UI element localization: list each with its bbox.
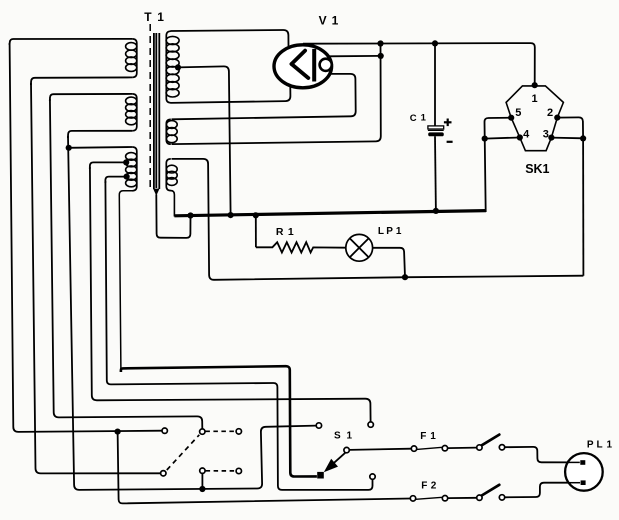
wire: SK1 pin 2 right and down bbox=[557, 117, 583, 138]
label V1 bbox=[319, 14, 339, 28]
svg-text:1: 1 bbox=[332, 14, 339, 28]
wire: S1 top lead to V1 anode (top) bbox=[171, 30, 289, 47]
svg-text:S: S bbox=[334, 431, 341, 442]
wire: neutral down to fuse F2 bbox=[118, 432, 411, 504]
switch S1 moving contact (square) bbox=[317, 472, 324, 479]
label LP1 bbox=[378, 226, 402, 237]
label S1 bbox=[334, 431, 353, 442]
wire: junction column down to S2 bottom lead bbox=[172, 44, 381, 145]
svg-text:SK1: SK1 bbox=[525, 162, 549, 176]
svg-text:1: 1 bbox=[421, 113, 427, 124]
wire: column 3 down to selector contact M1 feed bbox=[50, 99, 202, 429]
transformer T1 secondary winding S2 (rectifier heater) bbox=[166, 119, 177, 144]
switch S1 upper-right contact bbox=[368, 422, 373, 427]
label PL1 bbox=[587, 439, 613, 450]
svg-text:1: 1 bbox=[430, 431, 436, 442]
label F1 bbox=[420, 431, 436, 442]
svg-text:1: 1 bbox=[532, 93, 538, 105]
wire: S1 bottom lead up to V1 anode (bottom) bbox=[171, 87, 291, 103]
wire: switch to PL1 live pin bbox=[505, 447, 580, 463]
junction: pin3 line on right column bbox=[580, 135, 586, 141]
voltage selector switch: contact L1 bbox=[162, 428, 167, 433]
switch contact (neutral pole) bbox=[477, 485, 505, 501]
plug PL1 bbox=[565, 453, 603, 491]
transformer T1 primary winding P1 bbox=[126, 39, 137, 78]
wire: bus to R1 bbox=[255, 215, 257, 247]
selector gang link M1-R1 (dashed) bbox=[205, 430, 235, 432]
voltage selector switch: contact R2 bbox=[236, 468, 241, 473]
svg-text:1: 1 bbox=[347, 431, 353, 442]
svg-text:P: P bbox=[386, 226, 393, 237]
switch contact (live pole) bbox=[477, 435, 505, 451]
SK1 pin 4 bbox=[517, 134, 523, 140]
transformer T1 primary winding P3 (tapped) bbox=[126, 147, 137, 191]
svg-text:3: 3 bbox=[543, 129, 549, 141]
SK1 pin number labels bbox=[515, 93, 553, 141]
voltage selector switch: contact M2 bbox=[200, 468, 205, 473]
wire: right column down to lamp return line bbox=[582, 138, 584, 275]
wire: SK1 pin 4 to column bbox=[485, 138, 520, 139]
wire: column 1 (mains neutral) down to selector row A bbox=[10, 43, 162, 432]
wire: M2 stem bbox=[201, 474, 203, 489]
svg-text:4: 4 bbox=[523, 129, 530, 141]
svg-text:L: L bbox=[378, 226, 384, 237]
svg-text:T: T bbox=[144, 10, 152, 24]
SK1 pin 2 bbox=[554, 115, 560, 121]
svg-text:P: P bbox=[587, 439, 594, 450]
junction: centre tap on winding bbox=[175, 64, 181, 70]
lamp LP1 bbox=[346, 234, 373, 261]
svg-text:L: L bbox=[597, 439, 603, 450]
svg-text:5: 5 bbox=[515, 107, 521, 119]
label T1 bbox=[144, 10, 164, 24]
transformer T1 shield arrow to chassis bbox=[153, 189, 159, 196]
switch S1 upper-left contact bbox=[316, 423, 321, 428]
wire: P3 top lead joining column 4 bbox=[68, 146, 132, 149]
wire: P2 bottom lead to column 4 bbox=[68, 131, 132, 138]
selector rotor L2-M1 (dashed) bbox=[167, 435, 200, 470]
svg-text:V: V bbox=[319, 14, 327, 28]
wire: V1 filament pin to junction column bbox=[329, 55, 381, 57]
junction: filament pin on column bbox=[378, 53, 384, 59]
wire: column 4 (P2/P3 junction) down to selector common bbox=[68, 136, 316, 490]
junction: M2 stem on common line bbox=[199, 486, 205, 492]
label F2 bbox=[421, 481, 437, 492]
wire: live line (column 7) to S1 moving contact (thick) bbox=[121, 366, 317, 476]
wire: SK1 pin 3 to right column bbox=[551, 137, 583, 140]
SK1 pin 3 bbox=[548, 135, 554, 141]
junction: tap 1 on winding bbox=[123, 159, 129, 165]
wire: V1 filament pin 2 to S2 top lead bbox=[172, 74, 356, 119]
svg-text:R: R bbox=[276, 226, 284, 238]
voltage selector switch: contact L2 bbox=[161, 471, 166, 476]
wire: P1 bottom lead to column 2 bbox=[31, 77, 132, 85]
switch S1 lower-right contact bbox=[370, 474, 375, 479]
junction: C1 bottom on bus bbox=[433, 208, 439, 214]
svg-text:1: 1 bbox=[288, 226, 294, 238]
capacitor C1 (electrolytic) bbox=[428, 119, 453, 142]
resistor R1 bbox=[256, 242, 346, 252]
svg-text:F: F bbox=[421, 481, 427, 492]
switch S1 pivot contact bbox=[344, 447, 349, 452]
wire: F2 to switch contact bbox=[448, 497, 477, 499]
junction: HT+ / filament column bbox=[377, 40, 383, 46]
SK1 pin 5 bbox=[508, 115, 514, 121]
svg-text:2: 2 bbox=[431, 481, 437, 492]
svg-text:F: F bbox=[420, 431, 426, 442]
switch S1 blade with arrow bbox=[324, 452, 346, 472]
wire: switch to PL1 neutral pin bbox=[505, 483, 580, 498]
svg-text:1: 1 bbox=[396, 226, 402, 237]
wire: column 2 down to selector row B bbox=[31, 83, 160, 473]
wire: P3 tap 2 to column 6 bbox=[105, 177, 126, 183]
wire: bus corner up to SK1 pins 4,5 bbox=[484, 118, 510, 212]
transformer T1 electrostatic shield (dashed) bbox=[149, 24, 151, 192]
junction: shield loop on bus bbox=[187, 212, 193, 218]
wire: F1 to switch contact bbox=[448, 447, 477, 450]
label R1 bbox=[276, 226, 294, 238]
voltage selector switch: contact R1 bbox=[236, 429, 241, 434]
wire: column 6 down bbox=[105, 181, 372, 490]
selector gang link M2-R2 (dashed) bbox=[206, 470, 236, 472]
wire: C1 top lead bbox=[434, 43, 436, 126]
junction: pin4 line on column bbox=[482, 136, 488, 142]
rectifier valve V1 bbox=[274, 45, 332, 88]
wire: S1 to F1 bbox=[350, 449, 412, 450]
wire: S3 top lead down to lamp return line bbox=[172, 159, 584, 280]
transformer T1 primary winding P2 bbox=[126, 94, 137, 131]
SK1 pin 1 bbox=[532, 82, 538, 88]
junction: neutral drop on row A bbox=[115, 429, 121, 435]
wire: P2 top lead to column 3 bbox=[50, 94, 133, 101]
HT- bus (thick) bbox=[174, 211, 486, 216]
wire: S1 centre tap to HT- bus bbox=[178, 66, 230, 215]
svg-text:1: 1 bbox=[607, 439, 613, 450]
wire: P3 bottom lead to column 7 (mains live) bbox=[119, 191, 133, 369]
junction: LP1 on return line bbox=[402, 274, 408, 280]
junction: HV centre tap on bus bbox=[228, 212, 234, 218]
wire: column 5 down bbox=[90, 167, 371, 422]
label C1 bbox=[410, 113, 427, 124]
socket SK1 outline bbox=[506, 86, 563, 151]
wire: S3 bottom lead to bus bbox=[171, 191, 175, 217]
wire: HT+ output from V1 filament to C1 and SK1 pin 1 bbox=[303, 43, 535, 85]
junction: tap 2 on winding bbox=[124, 174, 130, 180]
wire: P3 tap 1 to column 5 bbox=[90, 162, 127, 169]
wire: C1 bottom lead to bus bbox=[434, 136, 437, 211]
svg-text:1: 1 bbox=[157, 10, 164, 24]
wire: LP1 to return line bbox=[373, 248, 405, 277]
junction: column 4 / P3 top bbox=[66, 145, 72, 151]
svg-text:C: C bbox=[410, 113, 417, 124]
wire: shield lead down-left-up to HT- bus bbox=[156, 195, 190, 238]
transformer T1 core bbox=[154, 33, 159, 189]
wire: P1 top lead to left column 1 bbox=[10, 39, 133, 45]
fuse F1 bbox=[411, 446, 447, 452]
junction: C1 top on HT+ line bbox=[432, 40, 438, 46]
junction: R1 drop on bus bbox=[253, 212, 259, 218]
transformer T1 secondary winding S3 (6V output) bbox=[166, 159, 177, 191]
transformer T1 secondary winding S1 (HV, centre-tapped) bbox=[166, 31, 179, 103]
fuse F2 bbox=[410, 496, 447, 502]
svg-text:2: 2 bbox=[547, 107, 553, 119]
voltage selector switch: contact M1 bbox=[200, 429, 205, 434]
